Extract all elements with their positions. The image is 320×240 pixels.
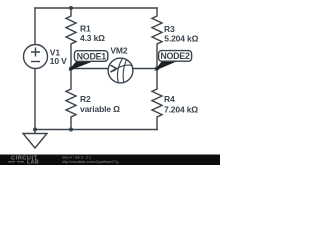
wire left upper (top corner to V1 plus terminal) bbox=[34, 8, 36, 45]
resistor R4 (7.204 k) body and leads bbox=[152, 69, 162, 130]
wire top (from V1 top to R3 top) bbox=[35, 7, 157, 9]
junction ground node bbox=[33, 128, 37, 132]
resistor R2 (variable) body and leads bbox=[66, 69, 76, 130]
svg-text:7.204 kΩ: 7.204 kΩ bbox=[164, 105, 198, 115]
label V1 / 10 V bbox=[50, 48, 67, 66]
svg-text:5.204 kΩ: 5.204 kΩ bbox=[164, 34, 198, 44]
resistor R1 (4.3 k) body and leads bbox=[66, 8, 76, 69]
svg-text:R3: R3 bbox=[164, 24, 175, 34]
svg-text:http://circuitlab.com/c2vpafhe: http://circuitlab.com/c2vpafheed77g bbox=[62, 160, 119, 164]
svg-text:VM2: VM2 bbox=[110, 45, 127, 55]
svg-text:NODE2: NODE2 bbox=[160, 51, 190, 61]
wire NODE1 to voltmeter VM2 left terminal bbox=[71, 68, 108, 70]
junction top R1 bbox=[69, 6, 73, 10]
voltage source V1 bbox=[24, 45, 48, 69]
node NODE1 flag and label bbox=[70, 51, 108, 70]
svg-text:4.3 kΩ: 4.3 kΩ bbox=[80, 33, 105, 43]
wire voltmeter VM2 right terminal to NODE2 bbox=[133, 68, 157, 70]
label R3 value 5.204 kOhm bbox=[164, 24, 199, 44]
junction node NODE1 bbox=[69, 66, 73, 70]
label R4 value 7.204 kOhm bbox=[164, 94, 198, 115]
svg-text:R1: R1 bbox=[80, 24, 91, 34]
svg-text:NODE1: NODE1 bbox=[77, 51, 107, 61]
svg-text:R4: R4 bbox=[164, 94, 175, 104]
ground bbox=[23, 130, 47, 149]
resistor R3 (5.204 k) body and leads bbox=[152, 8, 162, 69]
watermark bbox=[0, 155, 220, 166]
svg-text:lara.m / lab 3 - 2.1: lara.m / lab 3 - 2.1 bbox=[62, 155, 91, 159]
voltmeter VM2 bbox=[108, 58, 133, 83]
svg-text:R2: R2 bbox=[80, 94, 91, 104]
svg-text:10 V: 10 V bbox=[50, 56, 67, 66]
junction node NODE2 bbox=[155, 66, 159, 70]
wire left lower (V1 minus terminal to bottom corner) bbox=[34, 69, 36, 130]
junction bottom R2 bbox=[69, 128, 73, 132]
svg-text:variable Ω: variable Ω bbox=[80, 104, 120, 114]
label R1 value 4.3 kOhm bbox=[80, 24, 105, 44]
svg-text:LAB: LAB bbox=[27, 160, 39, 165]
wire bottom (ground node to R4 bottom) bbox=[35, 129, 157, 131]
node NODE2 flag and label bbox=[156, 51, 192, 70]
label R2 value variable bbox=[80, 94, 120, 114]
